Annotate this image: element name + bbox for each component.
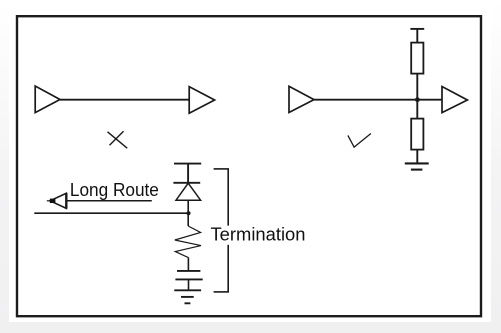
diode D1 triangle — [176, 183, 201, 200]
ground (top-right) — [405, 162, 429, 164]
long route wire — [34, 212, 188, 214]
resistor R2 (pull-down) — [411, 119, 423, 150]
capacitor C1 plate 2 — [175, 278, 202, 280]
node N1 junction dot (top-right) — [415, 97, 420, 102]
arrowhead tip square — [50, 199, 56, 203]
resistor R3 zigzag — [175, 226, 201, 258]
Long Route arrow line — [66, 200, 152, 202]
arrowhead (open, pointing left) — [50, 193, 66, 208]
diode D1 cathode bar — [173, 182, 200, 184]
receiver buffer U4 (top-right) — [442, 87, 467, 113]
wire diode to node — [187, 200, 189, 226]
svg-text:Termination: Termination — [211, 224, 306, 245]
wire R2 to ground — [416, 150, 418, 164]
wire C1 to ground — [188, 279, 190, 290]
driver buffer U3 (top-right) — [289, 86, 314, 112]
wire VCC to R1 — [416, 29, 418, 43]
svg-text:Long Route: Long Route — [70, 179, 159, 200]
termination bracket — [214, 168, 229, 170]
VCC rail bar — [410, 28, 424, 30]
wire U3 to U4 — [314, 99, 442, 101]
wire U1 to U2 — [60, 99, 189, 101]
ground (bottom) — [174, 289, 201, 291]
check mark (right) — [348, 134, 371, 148]
X mark (wrong) — [108, 132, 128, 148]
wire R1 to R2 through node — [416, 74, 418, 119]
node N2 junction dot (long route) — [186, 211, 190, 215]
wire R3 to C1 — [187, 258, 189, 271]
receiver buffer U2 (top-left) — [189, 87, 214, 114]
resistor R1 (pull-up) — [411, 43, 423, 74]
wire VCC to diode — [187, 164, 189, 183]
VCC rail bar (bottom) — [174, 163, 201, 165]
driver buffer U1 (top-left) — [35, 86, 60, 113]
capacitor C1 plate 1 — [177, 270, 200, 272]
